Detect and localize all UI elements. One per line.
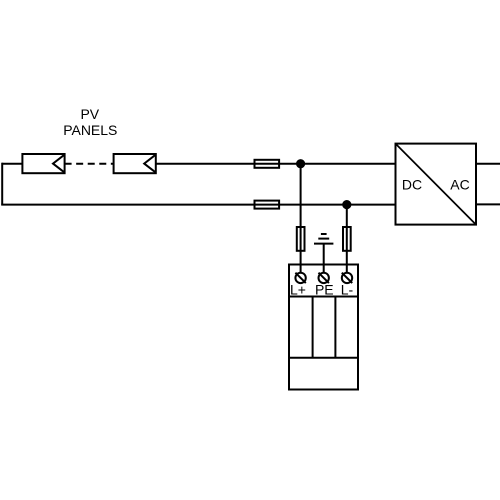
svg-text:PANELS: PANELS xyxy=(63,122,117,138)
inverter U1 DC/AC box xyxy=(396,144,477,225)
svg-text:L-: L- xyxy=(341,282,354,298)
svg-text:PE: PE xyxy=(315,282,334,298)
wire fuse F1 to inverter xyxy=(279,163,395,165)
dashed wire between modules xyxy=(65,163,114,165)
wire AC output top xyxy=(476,163,500,165)
SPD divider above base xyxy=(289,357,358,359)
wire AC output bottom xyxy=(476,203,500,205)
wire PV2 to fuse F1 xyxy=(156,163,255,165)
svg-text:L+: L+ xyxy=(290,282,306,298)
wire left lead to PV1 xyxy=(2,163,22,165)
svg-text:AC: AC xyxy=(450,177,469,193)
SPD module divider right xyxy=(334,297,336,358)
fuse F1 xyxy=(255,160,280,168)
PV panel module 1 xyxy=(22,154,64,173)
node junction DC+ xyxy=(296,159,305,168)
label PV PANELS xyxy=(63,106,117,138)
wire junction DC+ down to terminal L+ xyxy=(300,164,302,273)
PV panel module 2 xyxy=(114,154,156,173)
terminal PE xyxy=(319,273,329,283)
wire bottom return DC- xyxy=(1,204,395,206)
SPD module divider left xyxy=(312,297,314,358)
SPD divider below terminals xyxy=(289,296,358,298)
fuse F4 xyxy=(343,227,351,251)
SPD box outline xyxy=(289,265,358,390)
ground earth symbol xyxy=(314,234,333,244)
terminal L- xyxy=(342,273,352,283)
wire left vertical return xyxy=(1,163,3,205)
terminal L+ xyxy=(295,273,305,283)
svg-text:DC: DC xyxy=(402,177,422,193)
svg-text:PV: PV xyxy=(80,106,99,122)
wire ground to terminal PE xyxy=(323,244,325,273)
fuse F2 xyxy=(255,201,280,209)
node junction DC- xyxy=(342,200,351,209)
fuse F3 xyxy=(297,227,305,251)
wire junction DC- down to terminal L- xyxy=(346,205,348,273)
